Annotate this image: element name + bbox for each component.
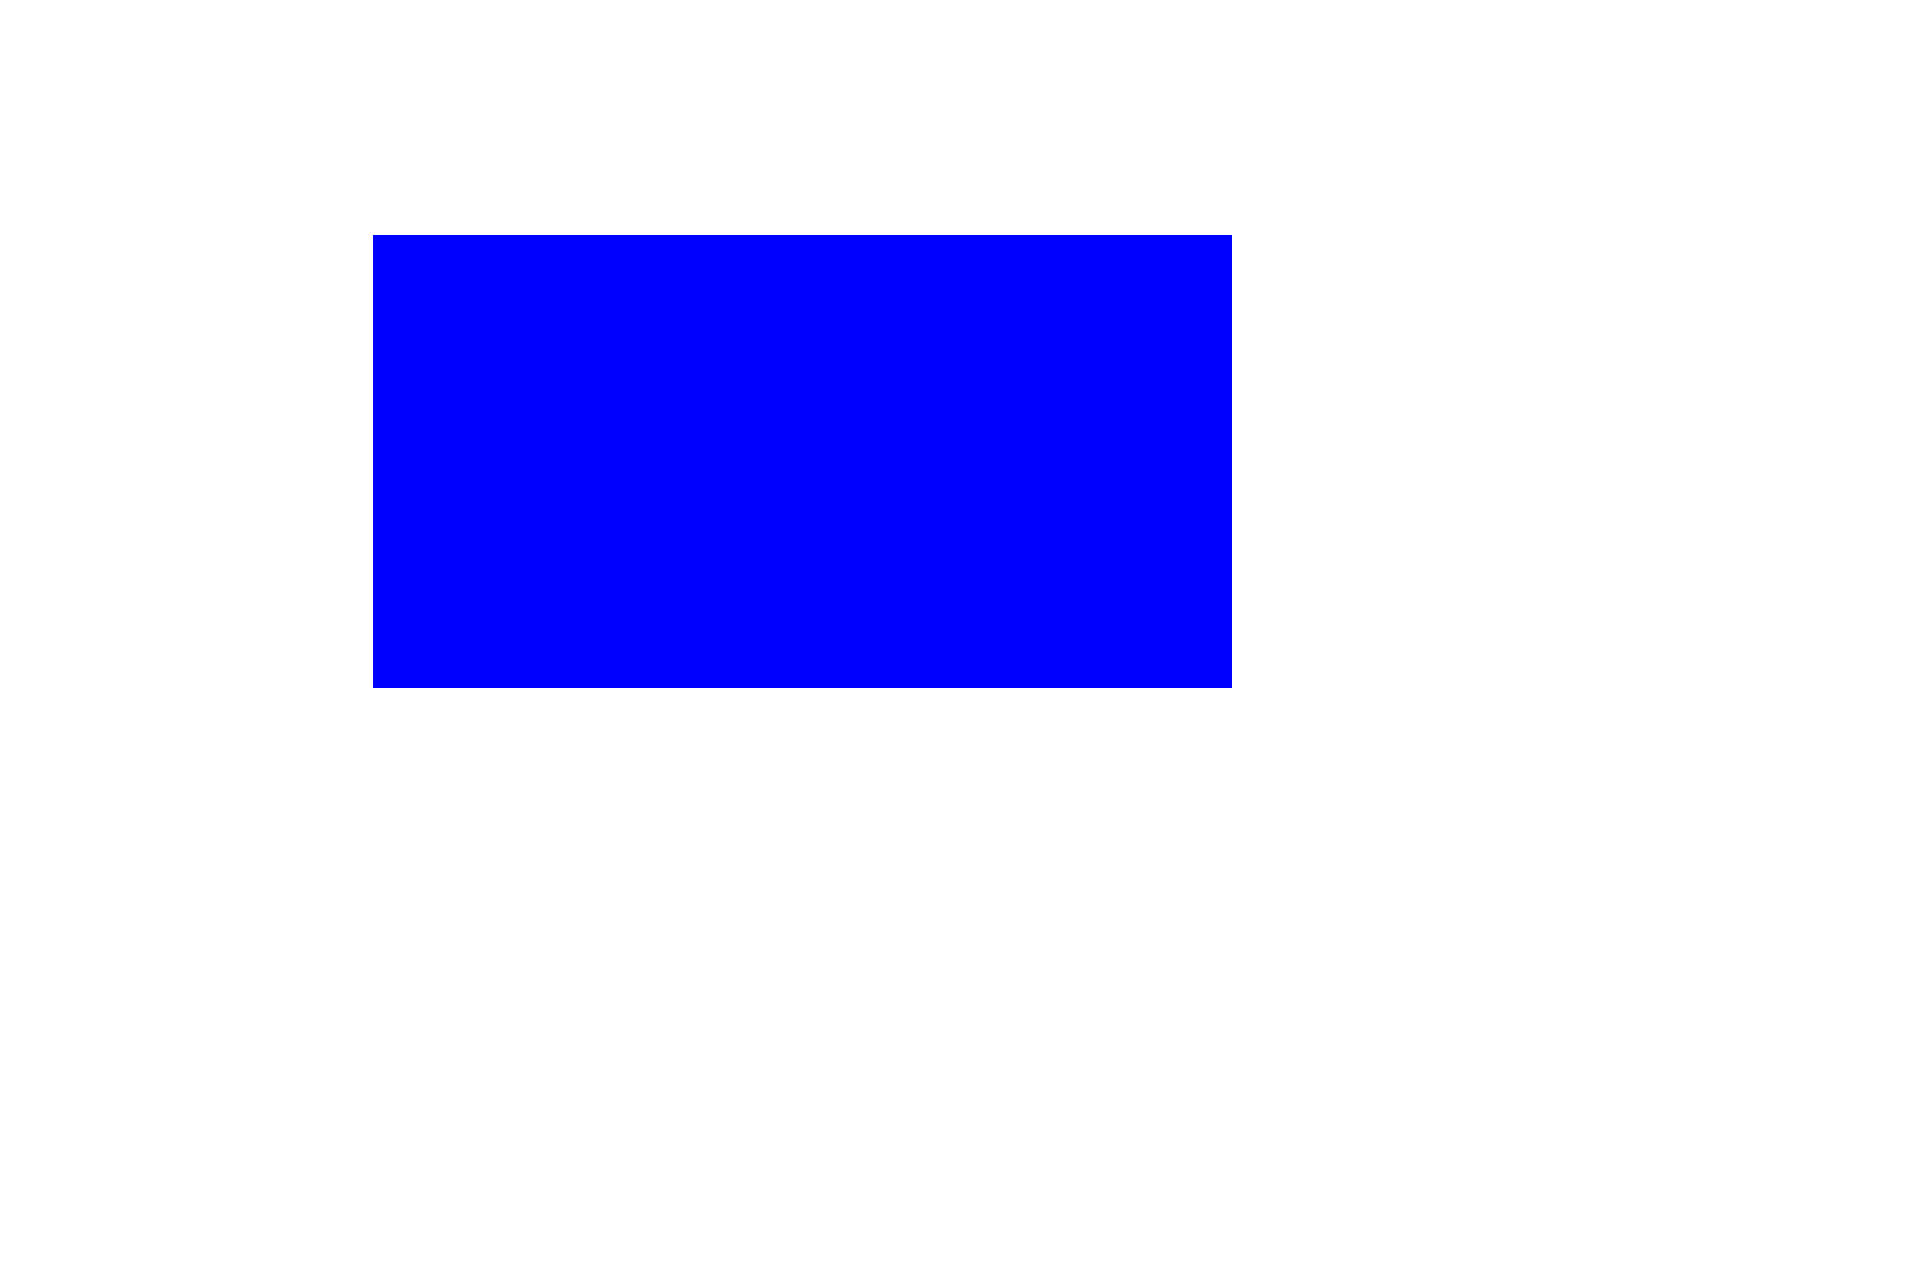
blue rectangle [373,235,1232,688]
